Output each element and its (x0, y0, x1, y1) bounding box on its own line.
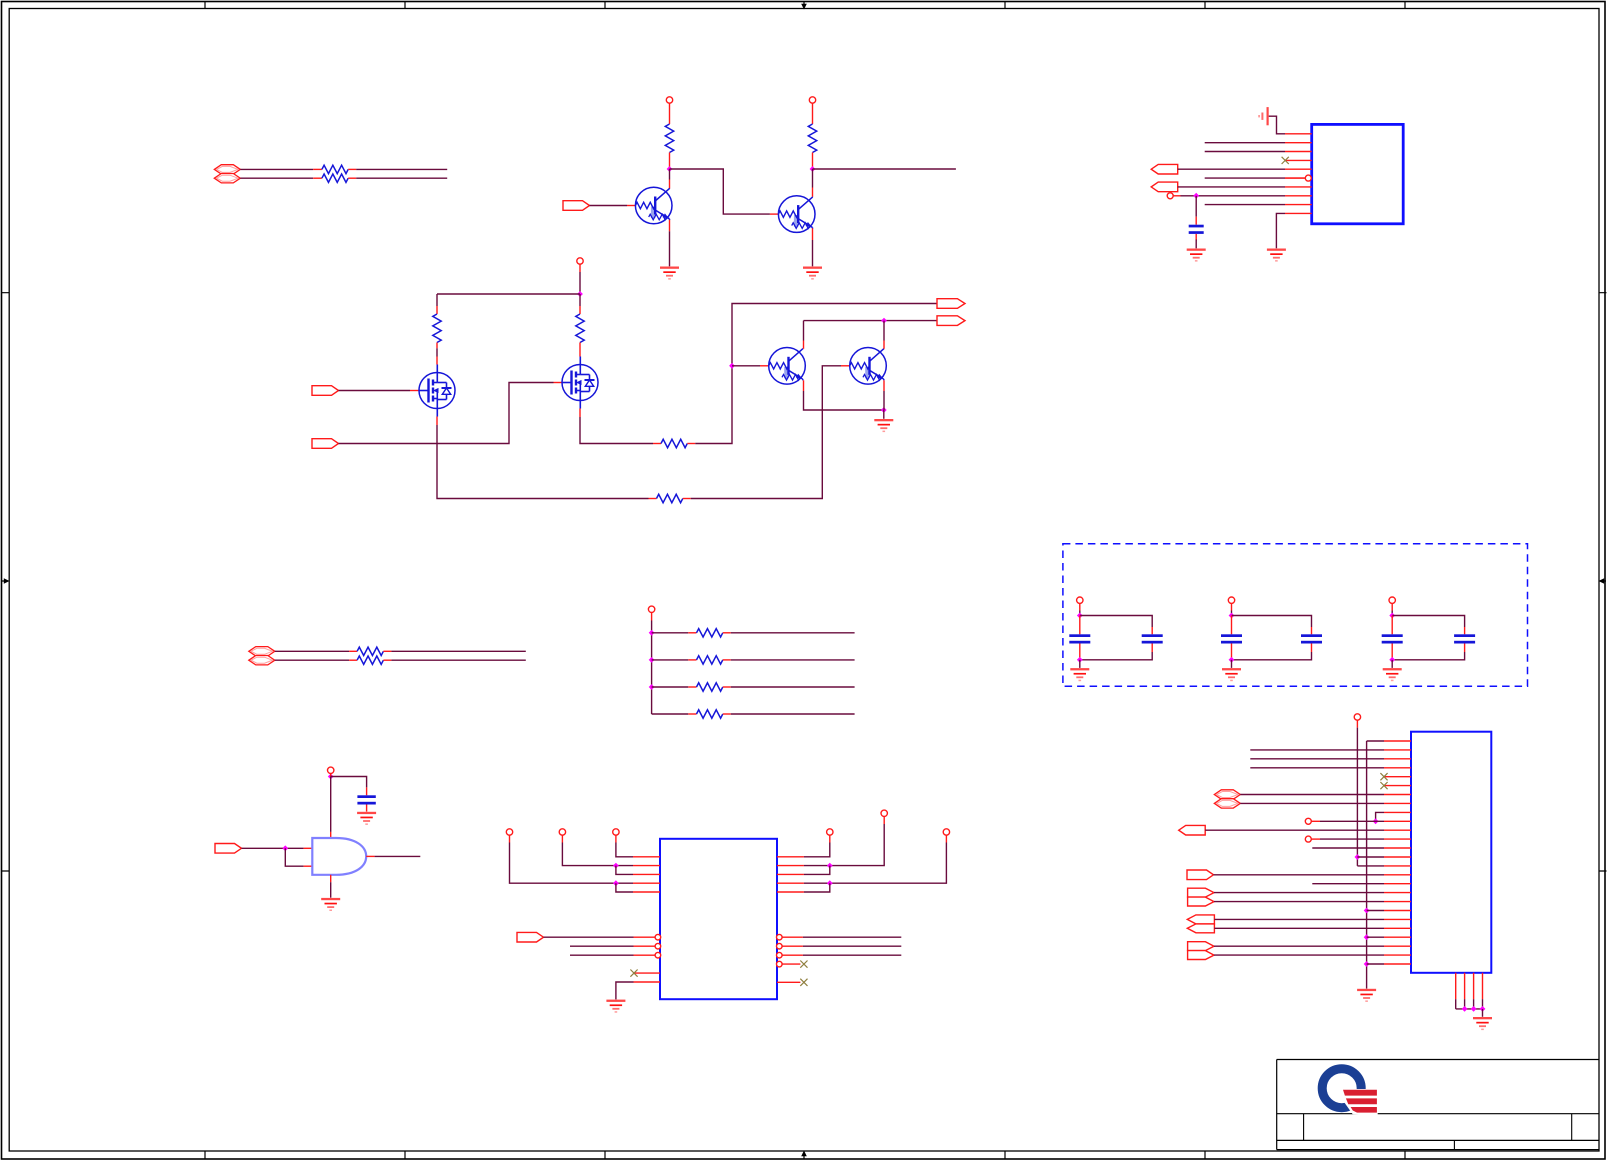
U4 bottom pin stubs (1456, 973, 1483, 999)
wire net1b (356, 168, 447, 170)
wire collector Q2 (812, 169, 814, 188)
IC U1 (1312, 124, 1404, 223)
port P2 bidirectional pair (249, 647, 275, 656)
wire U4 bottom bus (1455, 999, 1457, 1009)
resistor R9 (349, 650, 357, 652)
U3 right pin stubs (777, 857, 804, 892)
junction node N14 (1077, 613, 1083, 619)
wire U4 pin11 (1205, 829, 1384, 831)
power terminal T4 (577, 258, 583, 264)
wire Q4 collector (883, 341, 885, 349)
ground G4 (1267, 249, 1286, 251)
wire net4b (391, 659, 525, 661)
resistor R3 (665, 124, 673, 153)
capacitor C2 (357, 795, 375, 798)
wire T7 to L4 (509, 835, 511, 842)
wire bus to ground (1482, 1009, 1484, 1017)
port IN6 (1187, 870, 1214, 880)
port IN3 (312, 439, 339, 449)
wire U3 ground pin (616, 982, 634, 999)
dashed group box (1063, 544, 1528, 687)
wire unit 1 to ground (1079, 660, 1081, 668)
junction ladder node 3 (649, 684, 655, 690)
wire U4 pin9 link (1376, 812, 1384, 821)
wire U3 right pin8 (803, 954, 901, 956)
power terminal T15 (1389, 597, 1395, 603)
wire IN4 to gate (242, 847, 304, 849)
terminal T12 (943, 829, 949, 835)
wire U4 pin7 (1240, 794, 1384, 796)
bubble U3 right pin6 (777, 934, 783, 940)
wire U4 pin21 (1214, 918, 1384, 920)
wire N8 to gate top (330, 777, 332, 832)
junction node N17 (1229, 657, 1235, 663)
port P3 bidirectional pair (1214, 790, 1240, 799)
junction node N11 (613, 863, 619, 869)
U4 left pin stubs (1384, 741, 1411, 964)
bubble U3 left pin8 (655, 952, 661, 958)
no-connect U4 pin5 (1380, 773, 1387, 780)
wire U3 left pin7 (570, 945, 634, 947)
wire pin3 (1205, 151, 1285, 153)
wire N2 output (813, 168, 956, 170)
wire cap unit 3 top (1391, 603, 1393, 610)
wire Q3 collector (803, 341, 805, 349)
junction node N2 (810, 166, 816, 172)
wire rail to R6 (579, 294, 581, 306)
power terminal T13 (1077, 597, 1083, 603)
capacitor C5 left (1231, 616, 1233, 635)
wire T12 to R4 (945, 835, 947, 842)
bubble pin6 (1305, 175, 1311, 181)
ground G2 (803, 267, 822, 269)
resistor R6 (579, 306, 581, 314)
wire N10 to L5 (616, 883, 633, 892)
resistor R8 (653, 443, 661, 445)
no-connect U3 right pin10 (800, 979, 807, 986)
wire U4 pin10 (1311, 820, 1320, 822)
capacitor C1 (1189, 225, 1204, 228)
transistor Q2 (778, 196, 815, 233)
wire N7 to ground (883, 410, 885, 419)
wire net3a (275, 650, 349, 652)
U1 pin stubs (1285, 134, 1312, 214)
power terminal T5 (648, 606, 654, 612)
ground G11 (1383, 668, 1402, 670)
port OUT1 (937, 299, 965, 309)
junction node N7 (881, 407, 887, 413)
wire U4 pin26 link (1367, 963, 1384, 965)
port IN5 (517, 932, 544, 942)
junction node N26 (1471, 1006, 1477, 1012)
wire U4 pin24 (1214, 945, 1384, 947)
wire cap unit 1 bottom (1079, 644, 1081, 660)
wire pin6 (1205, 177, 1285, 179)
U3 right nc stub (777, 981, 800, 983)
junction node N23 (1364, 934, 1370, 940)
resistor R4 (808, 124, 816, 153)
wire U4 pin16 (1214, 874, 1385, 876)
port OUT-B (1151, 182, 1178, 192)
wire U4 pin22 (1214, 927, 1384, 929)
port OUT-D pair (1188, 888, 1214, 897)
junction node N16 (1229, 613, 1235, 619)
company logo (1322, 1069, 1378, 1116)
wire ladder row 3 right (731, 686, 855, 688)
wire cap unit 3 bottom (1391, 644, 1393, 660)
wire collector Q1 (669, 169, 671, 180)
wire collector rail to OUT2 (804, 320, 938, 322)
wire U3 right pin6 (803, 936, 901, 938)
junction node N4 (577, 291, 583, 297)
port OUT-C (1179, 825, 1206, 835)
wire pin10 to ground (1276, 213, 1285, 248)
wire U4 pin3 (1250, 758, 1384, 760)
power terminal T16 (1354, 714, 1360, 720)
terminal T18 (1305, 836, 1311, 842)
capacitor C6 right (1301, 634, 1322, 637)
wire N3 to C1 (1195, 196, 1197, 217)
resistor R2 (313, 177, 322, 179)
ground G12 (1357, 989, 1376, 991)
resistor R1 (313, 168, 322, 170)
wire V1 to V2 row15 (1357, 865, 1384, 867)
title block frame (1277, 1060, 1599, 1150)
wire T6 junction (330, 774, 332, 777)
power terminal T2 (809, 97, 815, 103)
wire top rail (437, 293, 580, 295)
wire ladder row 1 right (731, 632, 855, 634)
junction node N3 (1193, 193, 1199, 199)
bubble U3 left pin7 (655, 943, 661, 949)
wire net2a (240, 177, 313, 179)
wire rail to R5 (436, 294, 438, 306)
bubble U3 right pin7 (777, 943, 783, 949)
wire gate output (366, 855, 374, 857)
junction node N21 (1373, 818, 1379, 824)
port IN1 (563, 201, 590, 211)
wire net1a (240, 168, 313, 170)
mosfet M2 (562, 365, 598, 401)
ground G1 (660, 267, 679, 269)
wire ladder row 2 right (731, 659, 855, 661)
terminal T10 (827, 829, 833, 835)
junction node N25 (1462, 1006, 1468, 1012)
ground G7 (321, 898, 340, 900)
resistor R13 (688, 686, 696, 688)
wire net2b (356, 177, 447, 179)
wire U4 pin4 (1250, 767, 1384, 769)
capacitor C3 left (1079, 616, 1081, 635)
wire M2 source to R8 (579, 409, 581, 418)
U3 left pin stubs (633, 857, 660, 982)
wire ladder bus (651, 613, 653, 621)
wire U4 pin20 link (1367, 910, 1384, 912)
junction node N18 (1389, 613, 1395, 619)
title block dividers (1304, 1114, 1572, 1150)
wire pin5 (1178, 168, 1285, 170)
wire U4 pin8 (1240, 802, 1384, 804)
ground G10 (1222, 668, 1241, 670)
junction node N15 (1077, 657, 1083, 663)
port OUT2 (937, 316, 965, 326)
wire U3 right pin7 (803, 945, 901, 947)
wire ladder row 2 left (652, 659, 689, 661)
wire ladder row 3 left (652, 686, 689, 688)
junction node N27 (1480, 1006, 1486, 1012)
port OUT-A (1151, 164, 1178, 174)
ground G13 (1473, 1017, 1492, 1019)
junction node N12 (827, 863, 833, 869)
junction node N22 (1364, 908, 1370, 914)
wire V1 bus (1356, 720, 1358, 727)
junction node N13 (827, 880, 833, 886)
wire Q4 emitter (883, 380, 885, 391)
wire pin7 (1178, 186, 1285, 188)
wire U4 pin2 (1250, 749, 1384, 751)
resistor R11 (688, 632, 696, 634)
wire C2 to ground (366, 805, 368, 812)
wire unit 2 to ground (1231, 660, 1233, 668)
ground G8 (606, 1000, 625, 1002)
no-connect pin4 (1282, 157, 1289, 164)
wire N9 to gate input2 (285, 848, 303, 866)
bubble U3 right pin8 (777, 952, 783, 958)
junction node N19 (1389, 657, 1395, 663)
mosfet M1 (419, 373, 455, 409)
wire IN5 to U3 (544, 936, 634, 938)
port P1 bidirectional pair (214, 165, 240, 174)
wire cap unit 1 top (1079, 603, 1081, 610)
ground G3 (1187, 249, 1206, 251)
wire emitter Q2 (812, 228, 814, 240)
wire cap unit 2 top (1231, 603, 1233, 610)
wire N5 to Q3 base (732, 365, 760, 367)
terminal T11 (881, 810, 887, 816)
transistor Q3 (769, 348, 806, 385)
resistor R5 (436, 306, 438, 314)
junction node N9 (282, 845, 288, 851)
capacitor C8 right (1454, 634, 1475, 637)
transistor Q1 (635, 187, 672, 224)
wire ladder row 4 left (652, 713, 689, 715)
wire U3 left pin8 (570, 954, 634, 956)
wire Q3 emitter (803, 380, 805, 391)
IC U4 (1411, 732, 1491, 973)
wire pin2 (1205, 142, 1285, 144)
junction node N6 (881, 318, 887, 324)
ground G5 (874, 419, 893, 421)
terminal T3 (1167, 193, 1173, 199)
wire U4 pin18 (1214, 892, 1384, 894)
no-connect U4 pin6 (1380, 782, 1387, 789)
wire R6 to M2 drain (579, 349, 581, 357)
port OUT-E pair (1188, 942, 1214, 951)
power terminal T1 (666, 97, 672, 103)
terminal T8 (559, 829, 565, 835)
capacitor C4 right (1142, 634, 1163, 637)
wire U4 pin25 (1214, 954, 1384, 956)
wire T1 to R3 (669, 103, 671, 124)
junction node N10 (613, 880, 619, 886)
wire T4 down (579, 264, 581, 272)
terminal T7 (506, 829, 512, 835)
junction node N24 (1364, 961, 1370, 967)
bubble U3 right pin9 (777, 961, 783, 967)
wire M1 source to bottom rail (436, 417, 438, 426)
wire ladder row 4 right (731, 713, 855, 715)
wire IN2 to M1 gate (339, 390, 411, 392)
no-connect U3 right pin9 (800, 961, 807, 968)
resistor R10 (349, 659, 357, 661)
wire T8 to L2 (561, 835, 563, 842)
AND gate U2 (312, 838, 366, 875)
resistor R7 (649, 498, 657, 500)
wire U4 pin19 (1214, 901, 1384, 903)
wire N13 to R5 (804, 883, 830, 892)
junction node N5 (729, 363, 735, 369)
junction ladder node 1 (649, 630, 655, 636)
wire N11 to L3 (616, 866, 633, 875)
wire R5 to M1 drain (436, 348, 438, 356)
capacitor C7 left (1391, 616, 1393, 635)
wire emitter Q1 (669, 220, 671, 232)
wire U4 pin12 (1311, 838, 1320, 840)
resistor R12 (688, 659, 696, 661)
wire cap unit 2 bottom (1231, 644, 1233, 660)
wire pin9 (1205, 204, 1285, 206)
wire T9 to L1 (615, 835, 617, 842)
wire U4 pin23 link (1367, 936, 1384, 938)
junction node N20 (1355, 854, 1361, 860)
port IN4 (215, 844, 242, 854)
wire net3b (391, 650, 525, 652)
no-connect U3 left pin9 (634, 972, 660, 974)
wire IN3 to M2 gate (339, 383, 554, 444)
power terminal T6 (328, 767, 334, 773)
wire net4a (275, 659, 349, 661)
port IN7 pair (1187, 915, 1214, 924)
wire N1 to Q2 base (670, 169, 770, 214)
wire unit 3 to ground (1391, 660, 1393, 668)
junction node N1 (667, 166, 673, 172)
junction node N8 (328, 774, 334, 780)
wire T11 to R2 (883, 817, 885, 825)
wire U4 pin17 (1312, 883, 1384, 885)
wire C1 to ground (1195, 234, 1197, 241)
wire U4 pin13 (1312, 847, 1384, 849)
wire V2 pin1 link (1367, 740, 1384, 742)
resistor R14 (688, 713, 696, 715)
wire R7 to Q4 base (691, 366, 841, 499)
chassis ground E1 (1267, 107, 1269, 125)
wire N8 to C2 (331, 777, 367, 788)
wire R8 to OUT rail (695, 304, 937, 444)
wire gate bottom pin (330, 875, 332, 882)
wire IN1 to Q1 base (590, 205, 628, 207)
wire pin1 to chassis (1269, 116, 1285, 134)
ground G6 (357, 812, 376, 814)
wire V2 bus (1366, 741, 1368, 989)
IC U3 (660, 839, 777, 999)
junction ladder node 2 (649, 657, 655, 663)
terminal T9 (613, 829, 619, 835)
port IN2 (312, 386, 339, 396)
transistor Q4 (850, 348, 887, 385)
bubble U3 left pin6 (634, 936, 656, 938)
ground G9 (1070, 668, 1089, 670)
wire T2 to R4 (812, 103, 814, 124)
wire T10 to R1 (829, 835, 831, 842)
wire pin8 (1173, 195, 1180, 197)
wire ladder row 1 left (652, 632, 689, 634)
terminal T17 (1305, 818, 1311, 824)
wire V1 pin14 link (1357, 856, 1384, 858)
wire N12 to R3 (804, 866, 830, 875)
power terminal T14 (1228, 597, 1234, 603)
